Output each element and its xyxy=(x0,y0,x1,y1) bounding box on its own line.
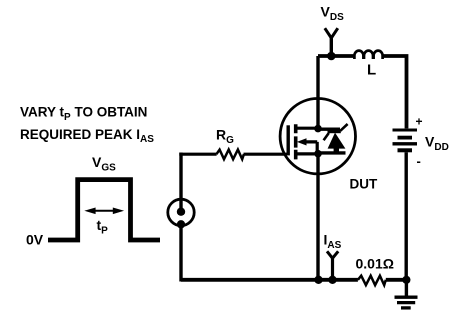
svg-text:0V: 0V xyxy=(26,232,44,248)
svg-text:L: L xyxy=(367,62,376,79)
svg-text:0.01Ω: 0.01Ω xyxy=(356,256,394,272)
svg-text:DUT: DUT xyxy=(350,177,378,192)
svg-text:-: - xyxy=(417,154,421,169)
svg-text:+: + xyxy=(416,115,423,129)
